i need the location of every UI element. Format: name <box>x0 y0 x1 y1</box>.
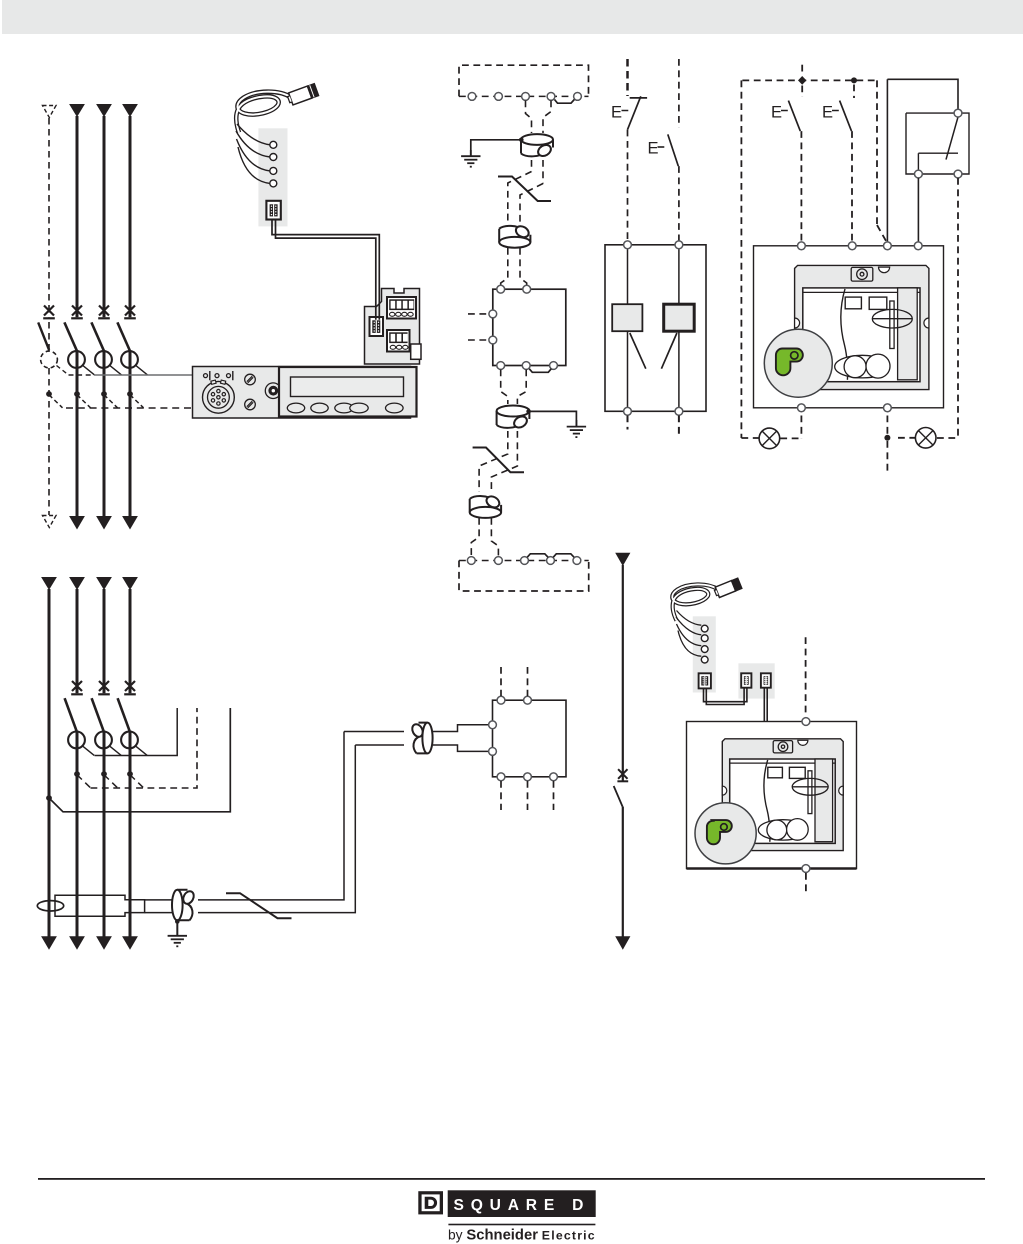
svg-text:E: E <box>771 104 782 122</box>
svg-text:E: E <box>648 140 659 158</box>
svg-text:SQUARE D: SQUARE D <box>454 1197 591 1214</box>
svg-text:E: E <box>611 104 622 122</box>
svg-text:E: E <box>822 104 833 122</box>
svg-text:by Schneider Electric: by Schneider Electric <box>448 1228 596 1244</box>
